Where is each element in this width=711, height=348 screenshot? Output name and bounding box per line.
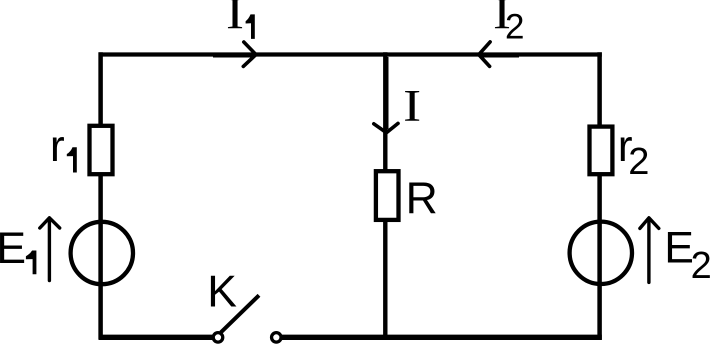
svg-text:R: R [406,174,438,223]
svg-text:2: 2 [691,245,711,287]
svg-text:2: 2 [505,8,524,47]
svg-text:2: 2 [628,141,649,183]
svg-text:K: K [207,268,237,317]
svg-text:E: E [664,223,694,272]
svg-text:I: I [403,81,421,131]
svg-text:E: E [0,224,26,273]
svg-text:r: r [50,122,65,171]
svg-text:I: I [226,0,244,39]
